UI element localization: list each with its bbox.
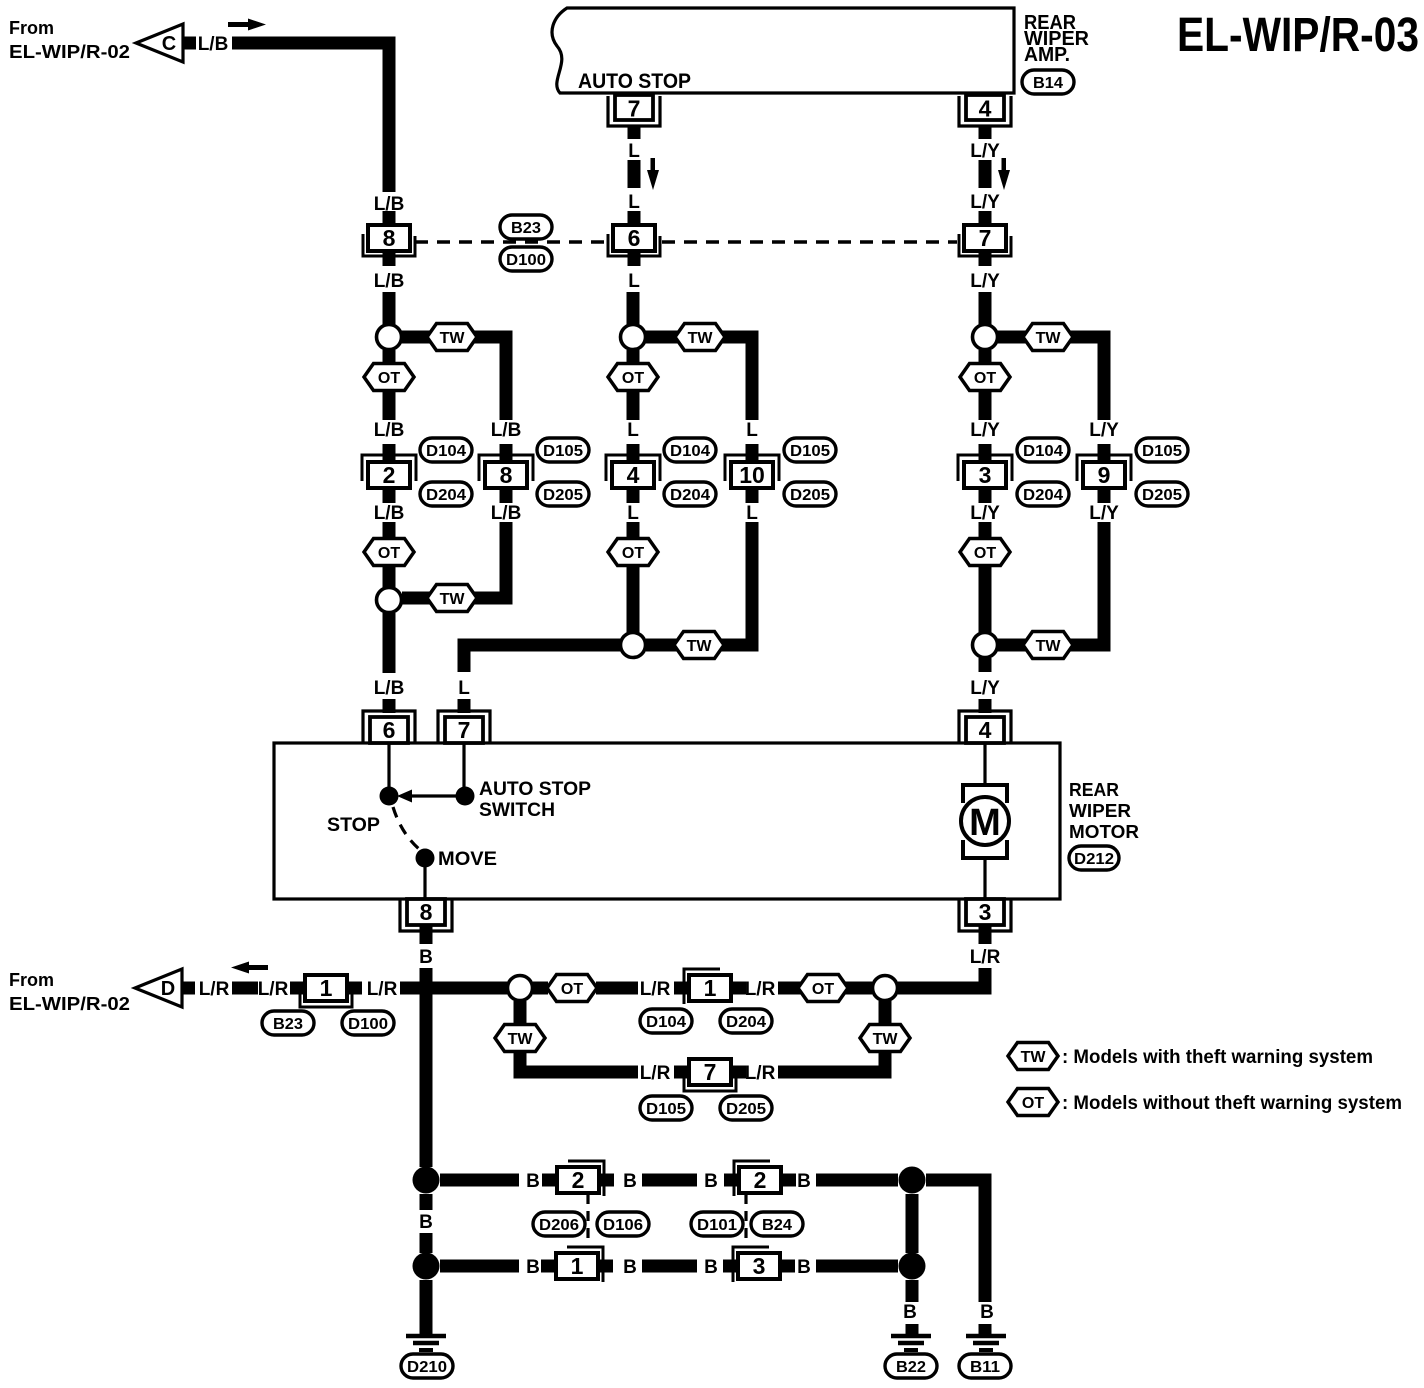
svg-text:L/Y: L/Y [970,192,1000,213]
svg-text:7: 7 [979,225,992,251]
dashed link D206/D106 [586,1194,589,1240]
ground B11 [966,1334,1006,1339]
arrow left [231,962,268,974]
svg-text:MOVE: MOVE [438,849,497,870]
wire between dots [906,1194,919,1253]
TW hexagon [674,632,724,659]
junction circle [973,633,998,658]
svg-text:6: 6 [628,225,641,251]
wire [979,391,992,420]
stop contact dot [380,787,399,806]
motor pin 3 [966,899,1004,925]
connector oval B24 [751,1212,803,1236]
motor pin 8 [407,899,445,925]
TW hexagon [1023,324,1073,351]
connector oval D206 [533,1212,585,1236]
connector oval B23 [262,1011,314,1035]
connector oval D210 [401,1354,453,1378]
svg-text:L/Y: L/Y [970,678,1000,699]
TW bypass wire lower row [520,1052,638,1072]
wire [383,391,396,420]
connector oval D204 [1017,482,1069,506]
svg-text:TW: TW [440,591,466,608]
svg-text:L: L [458,678,470,699]
connector 2 (D101/B24) [724,1174,739,1187]
svg-text:OT: OT [1022,1095,1044,1112]
wire [979,292,992,325]
TW hexagon [495,1025,545,1052]
svg-text:B: B [903,1302,917,1323]
connector 7 (B23/D100) [979,211,992,226]
OT hexagon [960,364,1010,391]
svg-text:L/R: L/R [745,979,776,1000]
connector oval D105 [537,438,589,462]
connector oval D204 [420,482,472,506]
svg-text:AUTO STOP: AUTO STOP [479,779,591,800]
svg-text:L/Y: L/Y [970,420,1000,441]
svg-text:OT: OT [561,981,583,998]
connector oval B14 [1022,70,1074,94]
connector oval D104 [1017,438,1069,462]
wire [383,566,396,588]
internal wire pin4 to motor [983,743,986,786]
svg-text:L/B: L/B [491,420,522,441]
svg-text:L/R: L/R [258,979,289,1000]
svg-text:L/B: L/B [374,678,405,699]
TW hexagon [1023,632,1073,659]
svg-text:From: From [9,18,54,38]
junction circle [621,633,646,658]
svg-text:L/R: L/R [199,979,230,1000]
wire [596,982,638,995]
connector oval B23 [500,215,552,239]
wire stub [979,350,992,364]
svg-text:D105: D105 [543,443,583,460]
svg-text:C: C [162,33,176,55]
connector 3 (D101/B24) [723,1260,738,1273]
svg-text:L/R: L/R [970,947,1001,968]
amp pin 4 [966,95,1004,120]
wire to motor pin 4 [979,658,992,672]
svg-text:L: L [627,503,639,524]
junction circle [508,976,533,1001]
svg-text:OT: OT [378,545,400,562]
motor pin 7 [458,699,471,713]
dashed harness line [415,240,606,243]
wire [627,522,640,538]
svg-text:L/Y: L/Y [970,271,1000,292]
svg-text:B: B [980,1302,994,1323]
connector oval D205 [720,1096,772,1120]
connector oval D205 [1136,482,1188,506]
svg-text:TW: TW [873,1031,899,1048]
branch wire to TW path [997,337,1104,420]
wire [383,292,396,325]
connector 1 (B23/D100) [290,982,305,995]
svg-text:STOP: STOP [327,815,380,836]
ground bus row 1 [440,1174,519,1187]
svg-text:D205: D205 [790,487,830,504]
wire [232,982,258,995]
svg-text:D210: D210 [407,1359,447,1376]
connector oval D212 [1069,846,1119,870]
TW hexagon [860,1025,910,1052]
junction circle [621,325,646,350]
svg-text:B: B [704,1171,718,1192]
svg-text:TW: TW [688,330,714,347]
move contact dot [416,849,435,868]
svg-text:D212: D212 [1074,851,1114,868]
svg-text:B: B [797,1257,811,1278]
OT hexagon [608,539,658,566]
connector 10 (D105/D205) [746,444,759,462]
svg-text:1: 1 [571,1253,584,1279]
junction circle [377,588,402,613]
svg-text:10: 10 [739,462,765,488]
svg-text:OT: OT [622,370,644,387]
svg-text:M: M [969,802,1001,844]
junction dot [899,1167,926,1194]
svg-text:OT: OT [974,545,996,562]
svg-text:TW: TW [1036,330,1062,347]
svg-text:D205: D205 [1142,487,1182,504]
wire stub [627,350,640,364]
TW bypass wire right [778,1052,885,1072]
amp pin 7 [615,95,653,120]
svg-text:D204: D204 [726,1014,766,1031]
connector oval D105 [784,438,836,462]
svg-text:D101: D101 [697,1217,737,1234]
switch arm arrow [412,794,456,797]
branch wire to TW path [645,337,752,420]
svg-text:L/R: L/R [745,1063,776,1084]
wire [979,522,992,538]
dashed link D101/B24 [744,1194,747,1240]
branch wire from TW [402,522,506,598]
svg-text:WIPER: WIPER [1069,801,1131,821]
connector 7 (D105/D205) [674,1066,689,1079]
connector triangle D [135,969,182,1007]
connector oval B22 [885,1354,937,1378]
svg-text:4: 4 [627,462,640,488]
svg-text:EL-WIP/R-02: EL-WIP/R-02 [9,994,130,1014]
branch wire from TW [997,522,1104,645]
svg-text:3: 3 [979,462,992,488]
svg-text:B22: B22 [896,1359,926,1376]
connector 4 (D104/D204) [627,444,640,462]
internal wire pin6 to stop contact [387,743,390,788]
svg-text:7: 7 [628,96,641,122]
wire up to motor pin 3 [898,968,985,988]
svg-text:B23: B23 [273,1016,303,1033]
connector 6 (B23/D100) [628,211,641,226]
svg-text:L/Y: L/Y [1089,503,1119,524]
svg-text:L: L [746,420,758,441]
svg-text:D204: D204 [1023,487,1063,504]
wire [778,982,872,995]
wire [627,292,640,325]
connector oval B11 [959,1354,1011,1378]
svg-text:B23: B23 [511,220,541,237]
svg-text:B11: B11 [970,1359,1000,1376]
svg-text:D205: D205 [726,1101,766,1118]
wire to motor pin 6 [383,613,396,673]
wire [533,982,548,995]
svg-text:OT: OT [812,981,834,998]
svg-text:D100: D100 [506,252,546,269]
svg-text:TW: TW [1021,1049,1047,1066]
svg-text:L/Y: L/Y [970,503,1000,524]
svg-text:B: B [797,1171,811,1192]
connector 2 (D104/D204) [383,444,396,462]
svg-text:1: 1 [704,975,717,1001]
svg-text:B: B [526,1171,540,1192]
wire break segment [628,160,641,188]
svg-text:B24: B24 [762,1217,792,1234]
svg-text:D105: D105 [646,1101,686,1118]
auto stop switch dot [456,787,475,806]
svg-text:L: L [628,271,640,292]
branch wire to TW path [400,337,506,420]
svg-text:D104: D104 [1023,443,1063,460]
svg-text:7: 7 [704,1059,717,1085]
svg-text:3: 3 [753,1253,766,1279]
wire [642,1174,697,1187]
svg-text:L/R: L/R [640,1063,671,1084]
svg-text:D104: D104 [646,1014,686,1031]
wire stub [383,350,396,364]
svg-text:: Models without theft warning: : Models without theft warning system [1062,1093,1402,1114]
svg-text:9: 9 [1098,462,1111,488]
svg-text:D106: D106 [603,1217,643,1234]
connector oval D105 [1136,438,1188,462]
internal wire motor to pin 3 [983,858,986,899]
TW bypass right stub [879,1001,892,1024]
svg-text:L/B: L/B [374,503,405,524]
svg-text:L: L [628,141,640,162]
wire [979,566,992,633]
connector oval D106 [597,1212,649,1236]
OT hexagon [960,539,1010,566]
wire to motor pin 7 [464,645,621,672]
OT hexagon [547,975,597,1002]
svg-text:D100: D100 [348,1016,388,1033]
wire [420,1194,433,1210]
connector oval D104 [420,438,472,462]
svg-text:D204: D204 [670,487,710,504]
svg-text:L/R: L/R [367,979,398,1000]
svg-text:2: 2 [572,1167,585,1193]
connector oval D204 [720,1009,772,1033]
ground stub [906,1324,919,1334]
connector oval D104 [640,1009,692,1033]
motor M symbol [963,785,1007,803]
wire from C to connector B23/D100 pin 8 [232,43,389,192]
svg-text:D105: D105 [790,443,830,460]
motor pin 4 [979,699,992,713]
TW bypass left stub [514,1001,527,1024]
svg-text:D205: D205 [543,487,583,504]
wire [627,391,640,420]
down arrow [651,158,656,172]
OT hexagon [364,364,414,391]
svg-text:TW: TW [1036,638,1062,655]
svg-text:4: 4 [979,717,992,743]
wire to ground B22 [906,1280,919,1302]
svg-text:OT: OT [622,545,644,562]
junction dot [899,1253,926,1280]
svg-text:B: B [419,1212,433,1233]
svg-text:6: 6 [383,717,396,743]
svg-text:TW: TW [508,1031,534,1048]
svg-text:EL-WIP/R-03: EL-WIP/R-03 [1177,9,1419,62]
wire [816,1174,898,1187]
wire pin 8 down to junction [420,968,433,1167]
connector oval D205 [784,482,836,506]
connector 9 (D105/D205) [1098,444,1111,462]
svg-text:3: 3 [979,899,992,925]
svg-text:1: 1 [320,975,333,1001]
svg-text:TW: TW [687,638,713,655]
ground D210 [406,1334,446,1339]
wire [627,566,640,633]
connector oval D100 [342,1011,394,1035]
wire [642,1260,697,1273]
svg-text:OT: OT [974,370,996,387]
svg-text:OT: OT [378,370,400,387]
connector 1 (D206/D106) [541,1260,556,1273]
connector oval D104 [664,438,716,462]
branch wire from TW [646,522,752,645]
wire to right ground branch [926,1180,985,1302]
wire to ground D210 [420,1280,433,1334]
connector oval D204 [664,482,716,506]
svg-text:D104: D104 [670,443,710,460]
svg-text:B: B [526,1257,540,1278]
svg-text:B14: B14 [1033,75,1063,92]
svg-text:2: 2 [754,1167,767,1193]
legend OT hexagon [1008,1089,1058,1116]
svg-text:B: B [623,1171,637,1192]
down arrow [1002,158,1007,172]
connector 8 (B23/D100) [383,211,396,226]
TW hexagon [427,324,477,351]
svg-text:8: 8 [420,899,433,925]
connector oval D101 [691,1212,743,1236]
svg-text:L/B: L/B [198,34,229,55]
rear wiper amp box B14 [552,8,1014,93]
svg-text:D104: D104 [426,443,466,460]
svg-text:L/B: L/B [491,503,522,524]
connector oval D205 [537,482,589,506]
OT hexagon [798,975,848,1002]
ground bus row 2 [440,1260,519,1273]
ground B22 [891,1334,931,1339]
junction dot [413,1253,440,1280]
wire [383,522,396,538]
OT hexagon [364,539,414,566]
svg-text:D206: D206 [539,1217,579,1234]
connector 8 (D105/D205) [500,444,513,462]
arrow right [228,19,266,31]
svg-text:4: 4 [979,96,992,122]
svg-text:D204: D204 [426,487,466,504]
junction circle [377,325,402,350]
svg-text:L/B: L/B [374,420,405,441]
svg-text:7: 7 [458,717,471,743]
svg-text:L/Y: L/Y [1089,420,1119,441]
svg-text:D105: D105 [1142,443,1182,460]
internal wire move contact to pin 8 [423,867,426,899]
wire [816,1260,898,1273]
svg-text:EL-WIP/R-02: EL-WIP/R-02 [9,42,130,62]
svg-text:L/R: L/R [640,979,671,1000]
connector 1 (D104/D204) [674,982,689,995]
svg-text:8: 8 [383,225,396,251]
svg-text:REAR: REAR [1069,780,1119,800]
svg-text:From: From [9,970,54,990]
svg-text:L: L [627,420,639,441]
connector oval D100 [500,247,552,271]
junction circle [973,325,998,350]
svg-text:AMP.: AMP. [1024,44,1070,66]
legend TW hexagon [1008,1043,1058,1070]
connector oval D105 [640,1096,692,1120]
internal wire pin7 to auto stop switch [462,743,465,788]
connector triangle C [136,24,183,62]
svg-text:2: 2 [383,462,396,488]
svg-text:SWITCH: SWITCH [479,800,555,821]
svg-text:TW: TW [440,330,466,347]
switch throw dashed arc [393,807,419,849]
svg-text:MOTOR: MOTOR [1069,822,1139,842]
svg-text:D: D [161,978,175,1000]
junction circle [873,976,898,1001]
svg-text:L/Y: L/Y [970,141,1000,162]
svg-text:8: 8 [500,462,513,488]
connector 3 (D104/D204) [979,444,992,462]
svg-text:L/B: L/B [374,271,405,292]
connector 2 (D206/D106) [542,1174,557,1187]
ground stub [979,1324,992,1334]
svg-text:: Models with theft warning sy: : Models with theft warning system [1062,1047,1373,1068]
svg-text:L: L [628,192,640,213]
svg-text:AUTO STOP: AUTO STOP [578,70,691,93]
OT hexagon [608,364,658,391]
svg-text:B: B [419,947,433,968]
svg-text:B: B [704,1257,718,1278]
wire across B line [400,982,507,995]
junction dot [413,1167,440,1194]
motor pin 6 [383,699,396,713]
rear wiper motor box D212 [274,743,1060,899]
svg-text:L: L [746,503,758,524]
svg-text:B: B [623,1257,637,1278]
TW hexagon [427,585,477,612]
wire break segment [979,160,992,188]
TW hexagon [675,324,725,351]
